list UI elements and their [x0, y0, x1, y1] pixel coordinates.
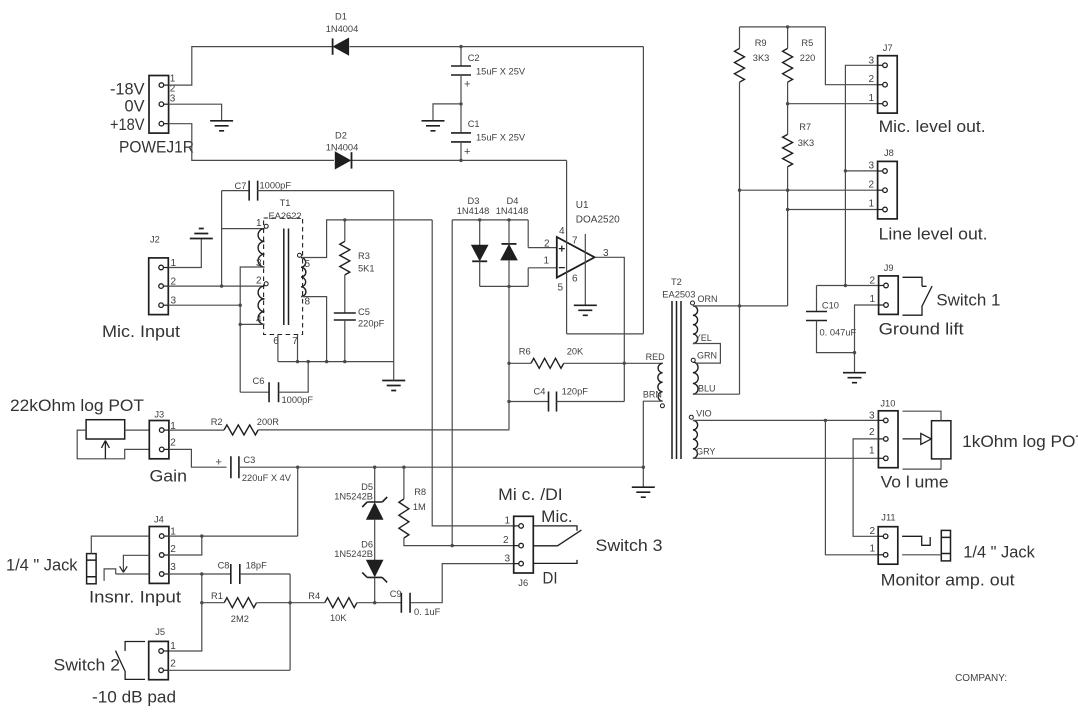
- svg-text:1000pF: 1000pF: [260, 181, 292, 191]
- svg-text:5: 5: [305, 259, 311, 270]
- wire C8 right: [240, 573, 290, 575]
- svg-text:1: 1: [504, 516, 510, 527]
- svg-text:2: 2: [544, 239, 550, 250]
- T1 bottom rail: [278, 361, 394, 363]
- potentiometer 1kOhm body: [932, 421, 951, 459]
- capacitor C1 15uF: [451, 133, 471, 142]
- bridge bottom rail: [480, 285, 529, 287]
- junction pin4 on vertical: [239, 323, 242, 326]
- svg-text:Mic. Input: Mic. Input: [102, 323, 181, 341]
- svg-text:1: 1: [543, 255, 549, 266]
- U1 output pin3: [595, 257, 625, 401]
- svg-text:1: 1: [256, 218, 262, 229]
- svg-text:T1: T1: [280, 198, 291, 208]
- svg-text:BRN: BRN: [643, 390, 662, 400]
- wire C9 right to J6 pin3: [410, 564, 514, 603]
- junction pin2 riser at pin1 wire: [200, 534, 203, 537]
- wire J4 pin3 to C8: [169, 573, 231, 575]
- svg-text:200R: 200R: [257, 417, 280, 427]
- svg-text:10K: 10K: [330, 613, 347, 623]
- svg-text:3K3: 3K3: [753, 53, 770, 63]
- wire C2 top to rail: [460, 47, 462, 66]
- volume pot top terminal: [903, 411, 942, 421]
- ground below T1 rail: [382, 381, 405, 391]
- svg-text:0V: 0V: [125, 97, 145, 115]
- R5 bottom to J7 pin1 junction: [787, 82, 789, 134]
- svg-text:2: 2: [170, 659, 176, 670]
- junction D4 at bridge bottom: [507, 285, 510, 288]
- svg-text:220: 220: [800, 53, 816, 63]
- capacitor C2 15uF: [451, 66, 471, 75]
- R8 top: [403, 467, 405, 499]
- svg-text:1kOhm log POT: 1kOhm log POT: [962, 433, 1078, 451]
- jack NC contact from J4 pin2: [123, 555, 149, 572]
- svg-text:1/4 " Jack: 1/4 " Jack: [963, 544, 1035, 562]
- ground stub below rail: [393, 362, 395, 381]
- T2 primary winding RED-BRN: [658, 363, 663, 401]
- svg-text:3: 3: [170, 562, 176, 573]
- T2 secondary winding ORN-YEL: [693, 306, 698, 344]
- ORN wire: [693, 305, 788, 307]
- svg-text:1M: 1M: [413, 502, 426, 512]
- op-amp U1 triangle: [557, 237, 595, 278]
- T2 secondary winding GRN-BLU: [693, 362, 698, 394]
- junction R6 at output vertical: [623, 362, 626, 365]
- C3 ground rail: [239, 466, 643, 468]
- resistor R8 1M: [399, 499, 409, 538]
- junction J8 pin1 wire at R7 column: [786, 208, 789, 211]
- svg-text:220uF X 4V: 220uF X 4V: [242, 473, 292, 483]
- svg-text:2M2: 2M2: [231, 614, 249, 624]
- zener middle link: [374, 519, 376, 561]
- junction R5-R7-J7pin1: [786, 102, 789, 105]
- wire T1 pin3: [240, 267, 264, 392]
- svg-text:J7: J7: [883, 43, 893, 53]
- svg-text:J2: J2: [150, 235, 160, 245]
- junction at C3 rail J4 riser: [296, 466, 299, 469]
- junction C1 at +18V rail: [459, 159, 462, 162]
- D3 to bridge bottom: [479, 261, 481, 286]
- junction zener column at R4 wire: [373, 601, 376, 604]
- op-amp U1 plus minus marks: [559, 246, 565, 268]
- wire R2 to C4 node: [258, 429, 509, 431]
- svg-text:EA2503: EA2503: [662, 290, 695, 300]
- resistor R4 10K: [325, 598, 357, 608]
- zener diode D5 1N5242B: [362, 497, 387, 519]
- svg-text:2: 2: [869, 526, 875, 537]
- wire J1 pin2 to ground: [169, 104, 222, 121]
- junction C1-C2 midpoint: [459, 102, 462, 105]
- resistor R3 5K1: [340, 241, 350, 275]
- C10 top: [816, 286, 818, 312]
- svg-text:+18V: +18V: [110, 116, 145, 134]
- svg-text:C2: C2: [468, 53, 480, 63]
- svg-text:R2: R2: [211, 417, 223, 427]
- svg-text:C6: C6: [253, 376, 265, 386]
- T2 BRN polarity dot: [660, 404, 664, 408]
- junction C7 vertical at pin2 wire: [220, 284, 223, 287]
- transformer T1 secondary winding pins 5-8: [301, 258, 306, 297]
- svg-text:0. 047uF: 0. 047uF: [820, 328, 857, 338]
- svg-text:C9: C9: [390, 589, 402, 599]
- resistor R2 200R: [224, 425, 258, 435]
- svg-text:RED: RED: [646, 352, 666, 362]
- junction bridge vertical at J6 pin2 wire: [451, 544, 454, 547]
- junction rail at R7 column: [786, 189, 789, 192]
- svg-text:15uF X 25V: 15uF X 25V: [476, 133, 526, 143]
- junction R6 left: [507, 362, 510, 365]
- svg-text:T2: T2: [671, 277, 682, 287]
- capacitor C10 0.047uF: [806, 312, 827, 321]
- R7 bottom column to ORN: [787, 167, 789, 306]
- svg-text:R5: R5: [801, 38, 813, 48]
- connector J2: [149, 258, 169, 315]
- transformer T1 primary winding A pins 1-3: [258, 229, 264, 267]
- transformer T1 core: [284, 229, 289, 326]
- svg-text:R3: R3: [358, 251, 370, 261]
- wire J10 pin2 to J11 pin2: [853, 439, 878, 536]
- switch SW1 ground lift: [903, 277, 933, 315]
- resistor R1 2M2: [224, 598, 256, 608]
- svg-text:Line level out.: Line level out.: [879, 226, 988, 244]
- svg-text:D3: D3: [468, 196, 480, 206]
- volume pot bottom terminal: [903, 459, 942, 469]
- svg-text:Vo l ume: Vo l ume: [881, 474, 949, 492]
- capacitor C8 18pF: [231, 564, 240, 584]
- wire C4 left: [509, 401, 549, 403]
- R8 bottom to J6 pin2: [404, 538, 514, 546]
- T1 pin1 polarity dot: [264, 224, 268, 228]
- junction R3 at pin5 rail: [343, 218, 346, 221]
- junction R8 at C3 rail: [402, 466, 405, 469]
- resistor R6 20K: [531, 358, 564, 368]
- ground at J1 0V: [210, 121, 233, 131]
- YEL-GRN jumper: [693, 344, 721, 364]
- BLU wire: [693, 393, 740, 395]
- wire J8 pin3: [845, 170, 877, 172]
- svg-text:R8: R8: [414, 487, 426, 497]
- diode D2 1N4004: [335, 152, 351, 169]
- svg-text:15uF X 25V: 15uF X 25V: [476, 67, 526, 77]
- wire -18V rail D1 to U1 corner: [350, 46, 644, 48]
- wire C6 left: [240, 391, 269, 393]
- U1 power vertical pins 4-5: [566, 160, 568, 334]
- svg-text:J3: J3: [154, 410, 164, 420]
- VIO wire to J10 pin3: [693, 419, 879, 421]
- svg-text:6: 6: [572, 274, 578, 285]
- connector J5: [149, 641, 169, 679]
- connector J8: [878, 161, 898, 219]
- T2 GRN polarity dot: [691, 358, 695, 362]
- svg-text:2: 2: [256, 276, 262, 287]
- svg-text:U1: U1: [576, 200, 589, 211]
- wire bridge to U1 pin2: [527, 220, 529, 248]
- wire mic link to J6 pin1: [432, 220, 514, 526]
- wire C2 bottom to C1 top: [460, 75, 462, 133]
- svg-text:1000pF: 1000pF: [282, 395, 314, 405]
- junction pin7 at bottom rail: [296, 360, 299, 363]
- pot left terminal: [77, 430, 149, 459]
- svg-text:+: +: [216, 457, 222, 469]
- junction D4 top: [507, 218, 510, 221]
- resistor R9 3K3: [735, 48, 745, 82]
- svg-text:2: 2: [869, 427, 875, 438]
- svg-text:DI: DI: [543, 570, 558, 588]
- R5 top stub: [787, 27, 789, 49]
- svg-text:1: 1: [869, 446, 875, 457]
- C10 bottom: [817, 321, 855, 353]
- svg-text:D1: D1: [335, 12, 347, 22]
- svg-text:1: 1: [868, 93, 874, 104]
- svg-text:GRY: GRY: [696, 447, 715, 457]
- potentiometer 22kOhm body: [86, 420, 125, 439]
- svg-text:4: 4: [559, 226, 565, 237]
- svg-text:3: 3: [603, 248, 609, 259]
- svg-text:J5: J5: [155, 627, 165, 637]
- svg-text:EA2622: EA2622: [268, 211, 301, 221]
- svg-text:3: 3: [869, 411, 875, 422]
- capacitor C5 220pF: [334, 313, 356, 320]
- svg-text:J10: J10: [880, 399, 895, 409]
- svg-text:R1: R1: [211, 591, 223, 601]
- svg-text:R6: R6: [519, 347, 531, 357]
- svg-text:J6: J6: [518, 578, 528, 588]
- wire C7 left vertical: [221, 191, 223, 287]
- svg-text:22kOhm log POT: 22kOhm log POT: [10, 397, 144, 415]
- wire C1 bottom to +18V rail: [460, 142, 462, 161]
- pot right terminal to J3 pin1: [125, 429, 150, 431]
- zener column bottom: [374, 577, 376, 602]
- ground at U1 pin6: [574, 305, 597, 315]
- svg-text:Switch 3: Switch 3: [596, 537, 663, 555]
- U1 pin2 input wire: [528, 247, 557, 249]
- svg-text:3: 3: [170, 94, 176, 105]
- wire J3 pin1 to R2: [169, 429, 224, 431]
- jack J11 tip contact: [902, 536, 930, 545]
- T2 VIO polarity dot: [689, 415, 693, 419]
- svg-text:8: 8: [305, 297, 311, 308]
- wire J2 pin2 to T1 pin2: [168, 285, 264, 287]
- U1 loop bottom: [567, 333, 644, 335]
- svg-text:1: 1: [170, 641, 176, 652]
- wire J1 pin1 to -18V top rail: [169, 47, 333, 86]
- U1 pin1 input wire: [528, 267, 557, 269]
- branch J4 pin3 down to J5 pin1: [168, 574, 202, 651]
- svg-text:1N4004: 1N4004: [326, 24, 359, 34]
- connector J4: [149, 527, 169, 584]
- wire bridge bottom to U1 pin1: [527, 268, 529, 287]
- junction R1 left at J4-J5 vertical: [200, 601, 203, 604]
- jack tip to J4 pin1: [91, 536, 149, 554]
- svg-text:Gain: Gain: [150, 468, 188, 486]
- svg-text:1/4 " Jack: 1/4 " Jack: [6, 557, 78, 575]
- wire mid ground branch: [433, 104, 461, 121]
- T2 secondary winding VIO-GRY: [693, 420, 698, 458]
- T1 pin7 shield stub: [297, 335, 299, 362]
- svg-text:Mic. level out.: Mic. level out.: [879, 118, 986, 136]
- R9 top stub: [739, 27, 741, 49]
- connector J9: [879, 276, 899, 315]
- svg-text:C8: C8: [218, 561, 230, 571]
- junction J7pin3 link at J9 pin2 wire: [844, 284, 847, 287]
- svg-text:+: +: [464, 79, 470, 91]
- connector J11: [878, 527, 898, 565]
- svg-text:J4: J4: [154, 515, 164, 525]
- svg-text:Switch 2: Switch 2: [54, 657, 121, 675]
- svg-text:3: 3: [868, 56, 874, 67]
- svg-text:C10: C10: [822, 301, 839, 311]
- R9 column: [739, 82, 741, 394]
- svg-text:D5: D5: [361, 482, 373, 492]
- svg-text:1N5242B: 1N5242B: [334, 549, 373, 559]
- svg-text:2: 2: [869, 276, 875, 287]
- junction R9 column at ORN wire: [738, 304, 741, 307]
- left bridge vertical long: [451, 220, 453, 546]
- wire C5 to bottom rail: [344, 320, 346, 362]
- svg-text:R9: R9: [755, 38, 767, 48]
- svg-text:-10 dB pad: -10 dB pad: [92, 689, 176, 707]
- diode D4 1N4148: [501, 244, 517, 260]
- wire to J7 pin1: [788, 103, 878, 105]
- connector J1: [149, 76, 169, 134]
- U1 loop right vertical to -18V rail: [642, 47, 644, 334]
- svg-text:1: 1: [869, 544, 875, 555]
- zener column top: [374, 467, 376, 502]
- switch SW2 -10dB pad: [116, 642, 146, 680]
- capacitor C7 1000pF: [249, 181, 258, 201]
- svg-text:20K: 20K: [567, 347, 584, 357]
- svg-text:R4: R4: [308, 591, 320, 601]
- svg-text:3K3: 3K3: [798, 138, 815, 148]
- D4 column top: [508, 220, 510, 244]
- junction J4 pin3 branch: [200, 572, 203, 575]
- line level rail R9 to J8 pin2: [740, 189, 878, 191]
- wire to J8 pin1: [788, 209, 878, 211]
- svg-text:1N5242B: 1N5242B: [334, 492, 373, 502]
- svg-text:1N4148: 1N4148: [457, 206, 490, 216]
- svg-text:Mi c. /DI: Mi c. /DI: [498, 486, 563, 504]
- svg-text:J8: J8: [884, 148, 894, 158]
- ground below J9: [843, 373, 866, 383]
- svg-text:1N4148: 1N4148: [496, 206, 529, 216]
- jack NC arrowhead: [120, 566, 128, 572]
- wire T1 pin8 to bottom rail: [301, 297, 327, 362]
- svg-text:2: 2: [170, 438, 176, 449]
- jack J4 body: [87, 554, 97, 584]
- svg-text:GRN: GRN: [697, 351, 717, 361]
- svg-text:1N4004: 1N4004: [326, 143, 359, 153]
- transformer T1 shield dashed box: [264, 218, 303, 335]
- wire R4 to C9: [357, 602, 401, 604]
- junction VIO at J11 riser: [824, 419, 827, 422]
- wire C7 rail: [222, 190, 250, 192]
- junction zener column at C3 rail: [373, 466, 376, 469]
- wire C7 to ground column: [257, 190, 394, 192]
- diode D1 1N4004: [333, 38, 349, 55]
- J4 pin3 wire left segment: [116, 573, 150, 575]
- svg-text:POWEJ1R: POWEJ1R: [119, 139, 194, 157]
- T1 pin6 shield stub: [277, 335, 279, 362]
- wire R3 top: [344, 220, 346, 242]
- svg-text:VIO: VIO: [696, 409, 712, 419]
- svg-text:J11: J11: [881, 513, 895, 523]
- svg-text:DOA2520: DOA2520: [576, 215, 620, 226]
- svg-text:C3: C3: [243, 455, 255, 465]
- wire J3 pin2 to C3: [169, 449, 227, 467]
- svg-text:120pF: 120pF: [562, 387, 589, 397]
- svg-text:BLU: BLU: [698, 384, 716, 394]
- svg-text:0. 1uF: 0. 1uF: [414, 607, 441, 617]
- wire J9 pin2: [817, 285, 879, 287]
- D4 column down long: [508, 260, 510, 430]
- capacitor C4 120pF: [549, 392, 557, 412]
- ground column vertical: [393, 191, 395, 362]
- wire J7 pin3 link: [845, 65, 877, 285]
- riser VIO to J11 pin1: [825, 420, 878, 554]
- svg-text:R7: R7: [799, 122, 811, 132]
- svg-text:J9: J9: [884, 263, 894, 273]
- connector J7: [878, 56, 898, 113]
- wire J4 pin2 up to pin1 wire: [169, 536, 202, 555]
- zener diode D6 1N5242B: [362, 560, 387, 582]
- svg-text:Ground lift: Ground lift: [879, 321, 965, 339]
- wire J9 pin1 to ground: [855, 305, 879, 373]
- wire R1 to R4: [257, 602, 325, 604]
- riser J4 pin1 to C3 rail: [297, 467, 299, 536]
- svg-text:Monitor amp. out: Monitor amp. out: [881, 572, 1016, 590]
- wire +18V rail D2 to U1 corner: [352, 159, 567, 161]
- wire R1 left: [202, 602, 224, 604]
- GRY wire to J10 pin1: [693, 457, 879, 459]
- junction D3 top: [478, 218, 481, 221]
- wire T1 pin5 to top link rail: [302, 220, 432, 258]
- switch SW3 mic/di: [534, 526, 582, 564]
- svg-text:C7: C7: [235, 181, 247, 191]
- junction C4 left: [507, 400, 510, 403]
- junction C5 at bottom rail: [343, 360, 346, 363]
- transformer T1 primary winding B pins 2-4: [258, 286, 264, 324]
- svg-text:C1: C1: [468, 119, 480, 129]
- svg-text:7: 7: [572, 236, 578, 247]
- wire J2 pin3 to vertical: [168, 304, 240, 306]
- svg-text:YEL: YEL: [695, 333, 712, 343]
- T1 pin2 polarity dot: [264, 282, 268, 286]
- junction C6 riser at bottom rail: [307, 360, 310, 363]
- wire C6 right to bottom rail: [279, 362, 309, 393]
- svg-text:C5: C5: [358, 307, 370, 317]
- junction BRN vertical at C3 rail: [642, 466, 645, 469]
- bridge top rail: [452, 219, 528, 221]
- svg-text:2: 2: [503, 535, 509, 546]
- BRN wire to ground: [643, 401, 662, 487]
- svg-text:Mic.: Mic.: [541, 508, 573, 526]
- top rail of R network: [740, 26, 826, 28]
- U1 pin7 pin6 vertical: [584, 234, 586, 305]
- capacitor C3 220uF: [231, 456, 239, 478]
- junction R5 at top rail: [786, 25, 789, 28]
- svg-text:1: 1: [868, 199, 874, 210]
- wire T1 pin1: [222, 228, 265, 230]
- svg-text:2: 2: [868, 180, 874, 191]
- connector J3: [149, 421, 169, 459]
- wire R3 to C5: [344, 275, 346, 313]
- svg-text:5K1: 5K1: [358, 264, 375, 274]
- jack sleeve hook: [104, 569, 116, 581]
- svg-text:C4: C4: [534, 387, 546, 397]
- jack J11 body: [941, 530, 950, 561]
- svg-text:2: 2: [868, 74, 874, 85]
- svg-text:1: 1: [869, 294, 875, 305]
